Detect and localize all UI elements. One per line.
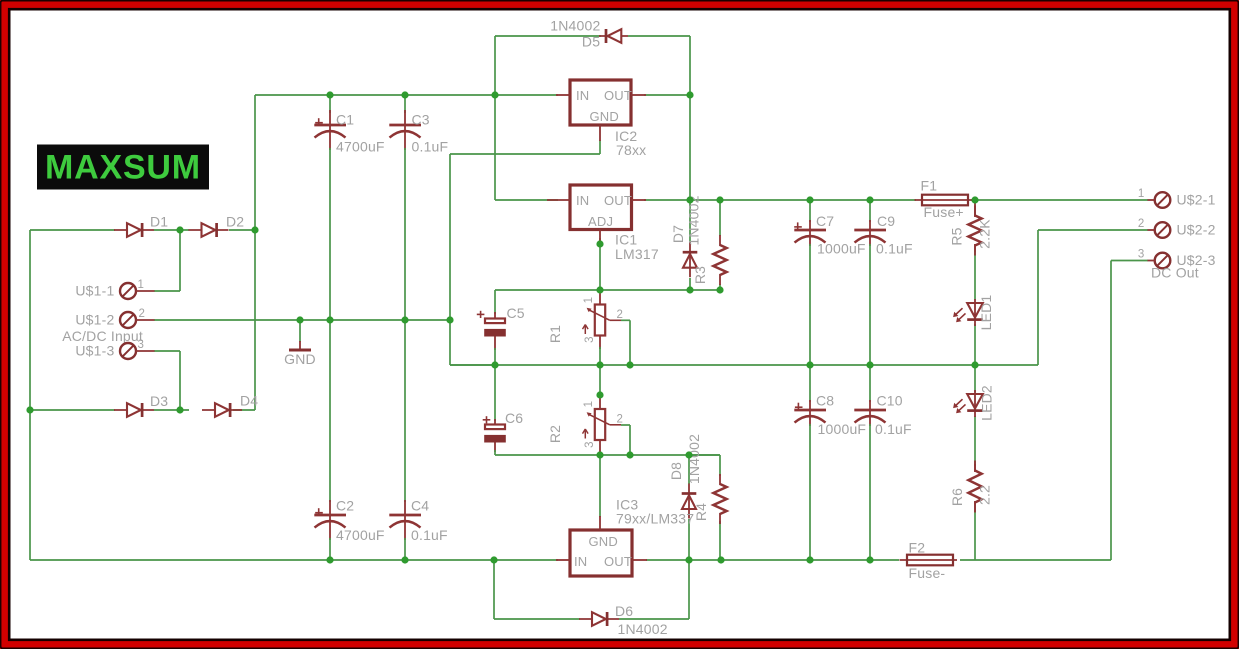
capacitor C8 [794, 403, 826, 423]
wire C1 lead x330 top [329, 95, 331, 320]
wire IC2 GND return y154 [450, 140, 600, 154]
capacitor C10 [854, 410, 886, 423]
wire IC1 OUT rail y200 [644, 199, 1148, 201]
diode D3 [114, 403, 154, 417]
regulator IC1 box [570, 185, 632, 230]
label IC2 value [616, 142, 646, 158]
svg-text:0.1uF: 0.1uF [412, 139, 449, 155]
label D6 name [615, 603, 633, 619]
label F1 name [921, 178, 938, 194]
svg-text:R3: R3 [692, 266, 708, 284]
svg-text:1N4002: 1N4002 [618, 621, 668, 637]
wire left column x30 [29, 230, 31, 560]
label C7 name [816, 213, 834, 229]
svg-text:MAXSUM: MAXSUM [45, 149, 201, 187]
svg-text:U$2-2: U$2-2 [1177, 222, 1216, 238]
resistor R3 [713, 235, 726, 285]
wire top rail +raw y95 [255, 94, 690, 96]
wire R2 rail y455 [600, 454, 720, 456]
svg-text:IN: IN [574, 554, 587, 569]
svg-text:D6: D6 [615, 603, 633, 619]
svg-text:D8: D8 [668, 462, 684, 480]
label U$1-1 [75, 283, 114, 299]
label IC1 pin OUT [604, 193, 632, 208]
label R1 [547, 325, 563, 343]
label IC3 name [616, 497, 638, 513]
svg-text:OUT: OUT [604, 193, 632, 208]
svg-text:4700uF: 4700uF [336, 527, 385, 543]
label R1 pin3 [584, 336, 596, 343]
connector U$2-2 [1148, 222, 1171, 238]
svg-text:C2: C2 [336, 498, 354, 514]
svg-text:R5: R5 [949, 227, 965, 245]
svg-text:ADJ: ADJ [588, 214, 613, 229]
label U$2-3 [1177, 252, 1216, 268]
label R5 value [977, 219, 993, 249]
wire U2-3 link [1111, 261, 1148, 561]
label F2 name [909, 540, 926, 556]
svg-text:C10: C10 [877, 393, 903, 409]
svg-text:IN: IN [576, 88, 589, 103]
svg-text:D2: D2 [226, 214, 244, 230]
label IC3 pin OUT [604, 554, 632, 569]
svg-text:2: 2 [617, 414, 624, 426]
label R1 pin2 [617, 309, 624, 321]
svg-text:C9: C9 [877, 213, 895, 229]
svg-text:LED1: LED1 [978, 295, 994, 331]
wire C4 lead x405 bottom [404, 320, 406, 560]
svg-text:GND: GND [284, 351, 316, 367]
label C3 value [412, 139, 449, 155]
svg-text:Fuse-: Fuse- [909, 565, 946, 581]
wire U2-2 link [1038, 230, 1148, 365]
label R6 value [977, 485, 993, 505]
capacitor C4 [389, 515, 421, 528]
wire U1-1 riser x180 [154, 230, 180, 291]
label D2 [226, 214, 244, 230]
svg-text:3: 3 [1138, 249, 1145, 261]
label C5 [507, 305, 525, 321]
label D8 name [668, 462, 684, 480]
svg-text:2.2K: 2.2K [977, 219, 993, 249]
svg-text:U$1-2: U$1-2 [75, 312, 114, 328]
wire R1 pin2 drop x630 [621, 320, 630, 365]
label C4 name [411, 498, 429, 514]
svg-text:1: 1 [1138, 188, 1145, 200]
regulator IC3 box [570, 530, 632, 576]
svg-text:Fuse+: Fuse+ [924, 204, 964, 220]
wire mid 0V rail y365 [450, 364, 1038, 366]
svg-text:U$2-1: U$2-1 [1177, 192, 1216, 208]
diode D2 [189, 223, 229, 237]
svg-text:D5: D5 [582, 34, 600, 50]
svg-text:C6: C6 [505, 410, 523, 426]
label IC1 pin IN [576, 193, 589, 208]
wire AC centre y320 [154, 319, 450, 321]
wire R1 pin3 [599, 336, 601, 366]
svg-text:U$1-1: U$1-1 [75, 283, 114, 299]
diode D1 [114, 223, 154, 237]
svg-text:D4: D4 [240, 393, 258, 409]
label R2 pin3 [584, 441, 596, 448]
svg-text:0.1uF: 0.1uF [875, 421, 912, 437]
svg-text:R6: R6 [949, 488, 965, 506]
diode D6 [579, 612, 619, 626]
op-amp U1 -- regulator IC2 box [570, 80, 631, 125]
label IC1 name [615, 232, 637, 248]
svg-text:C5: C5 [507, 305, 525, 321]
label AC/DC Input [62, 328, 143, 344]
MAXSUM logo [37, 145, 209, 190]
wire D8 x689 [688, 455, 690, 560]
diode D8 [682, 484, 697, 519]
label D5 value [550, 18, 600, 34]
label D4 [240, 393, 258, 409]
capacitor C5 [477, 311, 506, 337]
svg-text:2: 2 [617, 309, 624, 321]
wire C6 branch x495 [495, 365, 600, 455]
label U$2-1 [1177, 192, 1216, 208]
label R6 name [949, 488, 965, 506]
label D8 value [686, 434, 702, 484]
label D1 [150, 214, 168, 230]
wire C9 lead x870 [869, 200, 871, 365]
label C10 value [875, 421, 912, 437]
svg-text:1: 1 [138, 279, 145, 291]
wire C5 branch x495 [494, 290, 496, 365]
svg-text:1: 1 [583, 297, 595, 304]
wire LED2 R6 x975 [974, 365, 976, 560]
wire x450 jog [450, 154, 495, 365]
connector U$2-1 [1148, 192, 1171, 208]
label R1 pin1 [583, 297, 595, 304]
label IC2 pin GND [590, 109, 620, 124]
capacitor C3 [389, 125, 421, 138]
wire ADJ rail y290 [495, 238, 720, 290]
wire R5 LED1 x975 [974, 202, 976, 365]
label IC3 pin IN [574, 554, 587, 569]
wire U1-3 riser x180 [154, 351, 180, 410]
svg-text:C4: C4 [411, 498, 429, 514]
capacitor C7 [794, 222, 826, 242]
label LED1 [978, 295, 994, 331]
svg-text:78xx: 78xx [616, 142, 646, 158]
label R3 [692, 266, 708, 284]
wire bottom rail y560 [30, 559, 1111, 561]
wire R2 pin1 [599, 365, 601, 410]
pin IC2 IN stub [556, 95, 646, 141]
label U$2-2 pin2 [1138, 218, 1145, 230]
label F1 value [924, 204, 964, 220]
svg-text:F1: F1 [921, 178, 938, 194]
wire D7 bottom [689, 278, 691, 290]
label C3 name [412, 112, 430, 128]
svg-text:DC Out: DC Out [1151, 265, 1199, 281]
label R5 name [949, 227, 965, 245]
svg-text:3: 3 [584, 336, 596, 343]
resistor R5 [968, 206, 981, 256]
wire R3 x720 [719, 200, 721, 290]
connector U$2-3 [1148, 253, 1171, 269]
svg-text:1000uF: 1000uF [817, 241, 866, 257]
label C2 name [336, 498, 354, 514]
capacitor C2 [314, 508, 346, 527]
label C4 value [411, 527, 448, 543]
wire D5 bypass loop [495, 36, 690, 95]
wire C3 lead x405 top [404, 95, 406, 320]
svg-text:R4: R4 [693, 503, 709, 521]
connector U$1-2 [120, 312, 155, 328]
svg-text:C3: C3 [412, 112, 430, 128]
wire IC3 GND riser x600 [599, 455, 601, 517]
label DC Out [1151, 265, 1199, 281]
label IC2 pin OUT [604, 88, 632, 103]
label R4 [693, 503, 709, 521]
label U$2-2 [1177, 222, 1216, 238]
LED LED1 [953, 299, 983, 326]
label IC3 value [616, 511, 694, 527]
label D3 [150, 393, 168, 409]
svg-text:3: 3 [138, 339, 145, 351]
ground symbol [289, 320, 311, 350]
label U$1-3 pin3 [138, 339, 145, 351]
svg-text:2: 2 [1138, 218, 1145, 230]
svg-text:2.2: 2.2 [977, 485, 993, 505]
label IC3 pin GND [589, 534, 619, 549]
svg-text:1000uF: 1000uF [818, 421, 867, 437]
svg-text:C1: C1 [336, 112, 354, 128]
svg-text:4700uF: 4700uF [336, 139, 385, 155]
svg-text:2: 2 [139, 308, 146, 320]
wire D1 row y230 [30, 229, 255, 231]
diode D4 [202, 403, 242, 417]
capacitor C9 [854, 230, 886, 243]
capacitor C6 [483, 416, 506, 442]
svg-text:U$1-3: U$1-3 [75, 343, 114, 359]
wire R2 pin3 [599, 440, 601, 455]
label U$1-1 pin1 [138, 279, 145, 291]
svg-text:1N4002: 1N4002 [686, 434, 702, 484]
wire R1 pin1 [599, 290, 601, 305]
wire R2 pin2 drop x630 [621, 425, 630, 455]
svg-text:D3: D3 [150, 393, 168, 409]
label IC2 pin IN [576, 88, 589, 103]
label C7 value [817, 241, 866, 257]
label U$2-3 pin3 [1138, 249, 1145, 261]
label C9 name [877, 213, 895, 229]
label R2 [547, 425, 563, 443]
svg-text:C7: C7 [816, 213, 834, 229]
wire C8 lead x810 [809, 365, 811, 560]
fuse F2 [900, 555, 958, 566]
svg-text:R2: R2 [547, 425, 563, 443]
fuse F1 [915, 195, 973, 206]
svg-text:GND: GND [589, 534, 619, 549]
label C9 value [876, 241, 913, 257]
svg-text:C8: C8 [816, 393, 834, 409]
svg-text:OUT: OUT [604, 554, 632, 569]
svg-text:1: 1 [583, 401, 595, 408]
label U$1-2 [75, 312, 114, 328]
label U$1-3 [75, 343, 114, 359]
svg-text:LED2: LED2 [979, 385, 995, 421]
label C6 [505, 410, 523, 426]
label D5 name [582, 34, 600, 50]
wire R4 x720 [689, 455, 720, 560]
svg-text:79xx/LM337: 79xx/LM337 [616, 511, 694, 527]
wire x495 drop to IC1 IN [495, 95, 558, 200]
wire x690 OUT link [689, 95, 691, 243]
svg-text:0.1uF: 0.1uF [411, 527, 448, 543]
svg-text:R1: R1 [547, 325, 563, 343]
svg-text:D7: D7 [670, 225, 686, 243]
svg-text:0.1uF: 0.1uF [876, 241, 913, 257]
label C10 name [877, 393, 903, 409]
label C8 name [816, 393, 834, 409]
svg-text:3: 3 [584, 441, 596, 448]
label C1 value [336, 139, 385, 155]
svg-text:1N4002: 1N4002 [550, 18, 600, 34]
wire C7 lead x810 [809, 200, 811, 365]
label D7 name [670, 225, 686, 243]
capacitor C1 [314, 118, 346, 137]
svg-text:GND: GND [590, 109, 620, 124]
connector U$1-3 [120, 343, 155, 359]
label D7 value [686, 195, 702, 245]
label IC2 name [615, 128, 637, 144]
potentiometer R2 [583, 409, 622, 440]
label LED2 [979, 385, 995, 421]
resistor R4 [713, 474, 726, 524]
label C2 value [336, 527, 385, 543]
label U$1-2 pin2 [139, 308, 146, 320]
label R2 pin1 [583, 401, 595, 408]
LED LED2 [953, 390, 983, 417]
label U$2-1 pin1 [1138, 188, 1145, 200]
connector U$1-1 [120, 283, 155, 299]
diode D5 [599, 29, 628, 43]
wire D3 row y410 [30, 409, 255, 411]
label C1 name [336, 112, 354, 128]
svg-text:OUT: OUT [604, 88, 632, 103]
label F2 value [909, 565, 946, 581]
label IC1 value [615, 246, 659, 262]
diode D7 [683, 242, 698, 277]
svg-text:D1: D1 [150, 214, 168, 230]
label IC1 pin ADJ [588, 214, 613, 229]
svg-text:F2: F2 [909, 540, 926, 556]
pin IC3 stubs [556, 516, 647, 560]
label GND [284, 351, 316, 367]
potentiometer R1 [583, 305, 622, 336]
wire rectifier column x255 [254, 95, 256, 410]
wire C2 lead x330 bottom [329, 320, 331, 560]
wire D6 loop [494, 560, 689, 619]
pin IC1 stubs [547, 200, 646, 241]
resistor R6 [968, 461, 981, 513]
svg-text:LM317: LM317 [615, 246, 659, 262]
wire C10 lead x870 [869, 365, 871, 560]
label C8 value [818, 421, 867, 437]
label R2 pin2 [617, 414, 624, 426]
label D6 value [618, 621, 668, 637]
svg-text:IN: IN [576, 193, 589, 208]
